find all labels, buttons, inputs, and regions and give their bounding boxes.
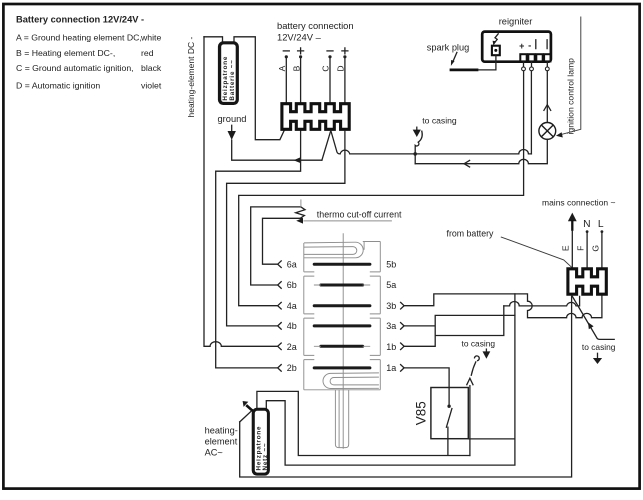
svg-text:4a: 4a — [287, 301, 297, 311]
svg-text:to casing: to casing — [422, 116, 457, 126]
svg-text:3b: 3b — [386, 301, 396, 311]
wire mains G — [601, 230, 604, 269]
svg-text:heating-element DC -: heating-element DC - — [186, 37, 196, 118]
svg-text:4b: 4b — [287, 321, 297, 331]
legend title — [16, 15, 144, 25]
svg-text:Batterie ~~: Batterie ~~ — [229, 59, 236, 100]
to casing switch blade (V85) — [471, 356, 479, 375]
pin 1a — [386, 363, 404, 373]
label ground — [218, 114, 247, 124]
wire 3b to mains L — [404, 294, 602, 318]
wire bus to mains N — [504, 296, 580, 306]
heater top tube — [304, 242, 364, 258]
ground symbol (battery) — [228, 125, 236, 140]
svg-text:C = Ground automatic ignition,: C = Ground automatic ignition, — [16, 63, 134, 73]
pin 6a — [278, 259, 297, 269]
connector circle pin minus — [530, 62, 534, 71]
wire E to casing diagonal — [572, 296, 614, 340]
svg-text:F: F — [575, 246, 585, 251]
label to casing (V85) — [462, 339, 496, 349]
reigniter terminal 1 — [520, 54, 526, 61]
pin 4b — [278, 321, 297, 331]
spark symbol — [493, 34, 499, 46]
legend line C — [16, 63, 162, 73]
connector circle pin lamp — [545, 62, 549, 71]
wire thermo bus to heater 6b — [251, 207, 301, 285]
wire V85 bottom bus — [257, 391, 470, 455]
heater bar row 4b/3a — [314, 324, 370, 327]
V85 switch blade — [446, 409, 452, 439]
heater side slot 3 — [304, 355, 381, 359]
wire long left vertical to heater 2a — [204, 37, 277, 347]
svg-text:black: black — [141, 63, 162, 73]
label pin B — [291, 65, 301, 71]
svg-text:A: A — [277, 65, 287, 71]
svg-text:battery connection: battery connection — [277, 20, 354, 31]
ignition lamp leader line — [556, 17, 581, 138]
label 5a — [386, 280, 396, 290]
svg-text:red: red — [141, 48, 154, 58]
label pin D — [336, 65, 346, 71]
wire riser to casing contact — [467, 378, 473, 455]
svg-text:Battery connection 12V/24V -: Battery connection 12V/24V - — [16, 15, 144, 25]
svg-text:from battery: from battery — [447, 228, 495, 238]
svg-text:+: + — [519, 41, 524, 51]
svg-text:6a: 6a — [287, 259, 297, 269]
pin C wire — [328, 55, 331, 104]
pin 1b — [386, 342, 404, 352]
mains connector block X2 — [568, 269, 606, 294]
heater shaft — [335, 390, 348, 448]
AC element arrow — [240, 401, 253, 422]
pin 3b — [386, 301, 404, 311]
svg-text:E: E — [561, 245, 571, 251]
thermal cut-off element — [296, 199, 305, 218]
spark plug electrode bar — [450, 69, 479, 72]
label to casing (upper) — [422, 116, 457, 126]
svg-text:B: B — [291, 65, 301, 71]
svg-text:C: C — [321, 65, 331, 71]
legend line D — [16, 81, 162, 91]
from battery leader — [501, 237, 572, 268]
battery connector block X1 — [282, 104, 349, 130]
legend line A — [16, 33, 161, 43]
label pin A — [277, 65, 287, 71]
pin D wire — [343, 55, 346, 104]
wire mains E — [571, 231, 573, 269]
to casing switch blade (upper) — [415, 131, 422, 154]
label N — [583, 219, 590, 230]
svg-text:spark plug: spark plug — [427, 43, 469, 53]
svg-text:2b: 2b — [287, 363, 297, 373]
V85 box — [431, 388, 468, 439]
to casing ground (V85) — [483, 349, 491, 359]
heater side slot 2 — [304, 314, 381, 318]
wire reigniter to lamp — [544, 71, 551, 122]
svg-text:ground: ground — [218, 114, 247, 124]
legend line B — [16, 48, 154, 58]
label V85 — [414, 401, 429, 425]
svg-text:violet: violet — [141, 81, 162, 91]
wire mains F — [586, 230, 589, 269]
junction casing-bus — [413, 152, 417, 164]
label to casing (mains) — [582, 342, 616, 352]
wire main riser to V85 and AC element — [266, 294, 515, 465]
pin 4a — [278, 301, 297, 311]
wire spark plug to reigniter — [478, 55, 496, 70]
to casing ground (mains) — [593, 353, 602, 364]
svg-text:1b: 1b — [386, 342, 396, 352]
heater center line — [342, 233, 344, 448]
wire reigniter plus to heater 4a — [239, 71, 524, 306]
wire pin D to heater 4b — [227, 131, 345, 326]
svg-text:element: element — [205, 437, 238, 447]
svg-text:ignition control lamp: ignition control lamp — [566, 58, 576, 135]
pin B wire — [299, 55, 302, 104]
ignition control lamp H1 — [539, 122, 556, 139]
wire battery-element loop — [204, 37, 284, 140]
label pin E — [561, 245, 571, 251]
label pin G — [590, 245, 600, 252]
polarity plus D — [342, 48, 348, 54]
svg-text:D = Automatic ignition: D = Automatic ignition — [16, 81, 100, 91]
svg-text:1a: 1a — [386, 363, 396, 373]
svg-text:mains connection ~: mains connection ~ — [542, 198, 616, 208]
label 5b — [386, 259, 396, 269]
svg-text:N: N — [583, 219, 590, 230]
heating element AC (Heizpatrone Netz) — [252, 408, 270, 476]
pin 2a — [278, 342, 297, 352]
wire AC element to mains E — [240, 296, 572, 477]
connector circle pin plus — [522, 62, 526, 71]
svg-text:G: G — [590, 245, 600, 252]
svg-text:to casing: to casing — [582, 342, 616, 352]
label ignition control lamp — [566, 58, 576, 135]
svg-text:to casing: to casing — [462, 339, 496, 349]
svg-text:AC~: AC~ — [205, 448, 223, 458]
heater body outline — [304, 242, 381, 390]
heater bar row 6b/5a — [314, 284, 370, 287]
to casing ground (upper) — [413, 127, 421, 137]
label reigniter — [499, 16, 533, 26]
label heating-element AC — [205, 425, 238, 457]
svg-text:3a: 3a — [386, 321, 396, 331]
label battery connection 12V/24V — [277, 20, 354, 43]
label reigniter polarity — [519, 40, 531, 51]
label from battery — [447, 228, 495, 238]
svg-text:B = Heating element DC-,: B = Heating element DC-, — [16, 48, 115, 58]
pin 6b — [278, 280, 297, 290]
label thermo cut-off current — [303, 210, 402, 221]
wire thermo bus to heater 6a — [263, 218, 304, 264]
label mains connection — [542, 198, 616, 208]
svg-text:5b: 5b — [386, 259, 396, 269]
polarity minus A — [283, 50, 289, 52]
svg-text:-: - — [528, 40, 531, 51]
svg-text:V85: V85 — [414, 401, 429, 425]
svg-text:reigniter: reigniter — [499, 16, 533, 26]
spark plug arrow — [451, 52, 457, 66]
svg-text:12V/24V –: 12V/24V – — [277, 31, 322, 42]
pin 3a — [386, 321, 404, 331]
wire 3a 1b links — [404, 306, 515, 346]
label spark plug — [427, 43, 469, 53]
wire reigniter minus down — [530, 71, 532, 154]
reigniter terminal 4 — [544, 54, 550, 61]
heater bar row 6a/5b — [314, 263, 370, 266]
label heating-element DC - — [186, 37, 196, 118]
wire pin C right leg to reigniter minus — [331, 131, 532, 154]
heater bar row 2a/1b — [314, 345, 370, 348]
wire pin B down to heater 2b — [216, 131, 301, 368]
heater bar row 4a/3b — [314, 304, 370, 307]
wire 1a into V85 — [404, 368, 451, 408]
svg-text:6b: 6b — [287, 280, 297, 290]
wire pin C left leg — [322, 131, 331, 161]
heater bar row 2b/1a — [314, 366, 370, 369]
label pin F — [575, 246, 585, 251]
reigniter U1 box — [482, 32, 551, 62]
svg-text:Netz ~~: Netz ~~ — [262, 443, 269, 471]
svg-text:thermo cut-off current: thermo cut-off current — [317, 210, 402, 220]
reigniter terminal 3 — [536, 54, 542, 61]
spark electrode box — [492, 46, 500, 56]
svg-text:white: white — [140, 33, 161, 43]
reigniter pin ticks — [536, 40, 547, 49]
heating element DC (Heizpatrone Batterie) — [218, 41, 239, 105]
polarity minus C — [327, 50, 333, 52]
polarity plus B — [298, 48, 304, 54]
wire lamp to casing bus — [415, 139, 547, 167]
reigniter terminal 2 — [528, 54, 534, 61]
wire ground to node B — [232, 140, 322, 163]
label pin C — [321, 65, 331, 71]
svg-text:2a: 2a — [287, 342, 297, 352]
pin 2b — [278, 363, 297, 373]
mains E arrow up — [568, 213, 577, 231]
svg-text:heating-: heating- — [205, 425, 238, 435]
svg-text:A = Ground heating element DC,: A = Ground heating element DC, — [16, 33, 142, 43]
svg-text:L: L — [598, 219, 604, 230]
heater side slot 1 — [304, 272, 381, 276]
svg-text:D: D — [336, 65, 346, 71]
svg-text:5a: 5a — [386, 280, 396, 290]
heater bottom tube — [323, 373, 379, 389]
label L — [598, 219, 604, 230]
pin A wire — [285, 55, 288, 104]
